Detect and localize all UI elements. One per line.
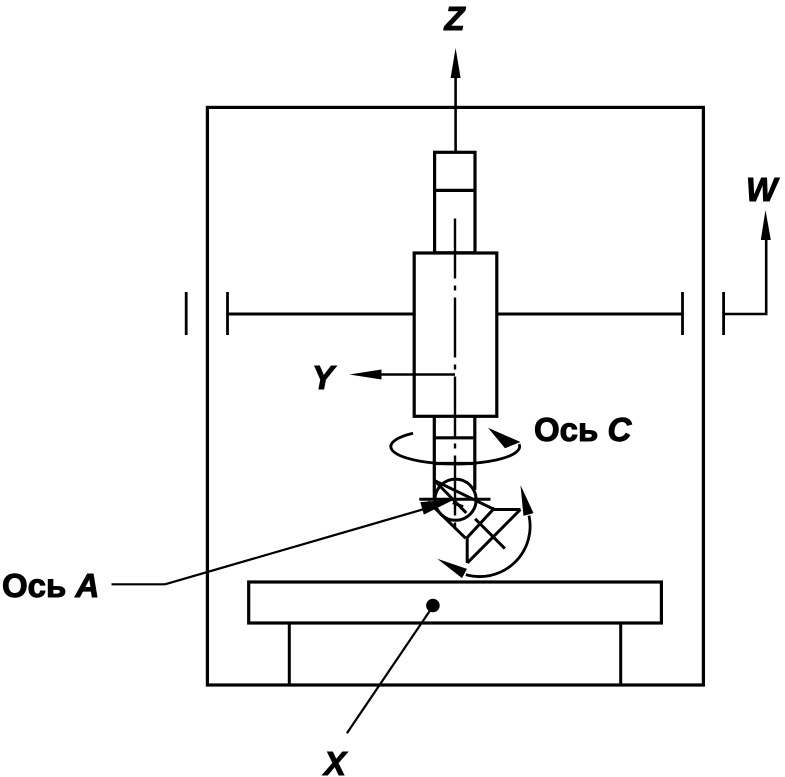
table reference dot — [426, 599, 440, 613]
Y arrowhead — [349, 370, 381, 380]
W axis arrow line — [724, 236, 766, 314]
pivot horizontal centerline — [419, 498, 490, 501]
svg-text:Z: Z — [444, 0, 467, 37]
head bottom vertical edge — [466, 538, 469, 563]
Z arrowhead — [451, 48, 461, 78]
pivot stub — [453, 503, 463, 507]
svg-text:Ось А: Ось А — [2, 567, 99, 604]
Z axis arrow line — [454, 74, 457, 151]
spindle neck left edge — [433, 416, 436, 498]
A leader diagonal segment — [165, 503, 445, 584]
head diagonal through circle — [434, 480, 466, 513]
pedestal left line — [288, 623, 291, 684]
svg-text:W: W — [746, 171, 780, 208]
head upper edge — [434, 480, 494, 509]
crossrail line right — [497, 313, 682, 316]
X leader line — [347, 607, 433, 733]
C axis rotation ellipse — [391, 433, 520, 464]
svg-text:Ось С: Ось С — [534, 411, 632, 448]
spindle head box — [414, 253, 497, 416]
svg-text:X: X — [322, 745, 348, 777]
tick inside left — [226, 292, 229, 335]
tick outside left — [185, 292, 188, 335]
crossrail line left — [228, 313, 414, 316]
A leader arrowhead — [420, 499, 455, 514]
spindle neck right edge — [473, 416, 476, 490]
A arc upper arrowhead — [521, 485, 534, 516]
Y axis arrow line — [377, 373, 455, 376]
quill divider — [435, 189, 475, 192]
head right edge — [467, 510, 520, 563]
head cross stroke — [475, 519, 505, 549]
svg-text:Y: Y — [312, 359, 337, 396]
head top short edge — [494, 508, 520, 511]
A axis rotation arc — [466, 516, 530, 577]
pivot circle — [435, 479, 476, 520]
A arc lower arrowhead — [437, 559, 467, 578]
spindle centerline (dash-dot) — [454, 219, 456, 535]
spindle neck upper cross line — [434, 436, 475, 439]
quill column — [435, 152, 475, 253]
head lower-left diagonal — [428, 502, 466, 539]
spindle neck lower cross line — [434, 462, 475, 465]
machine frame — [207, 107, 703, 685]
W arrowhead — [761, 210, 771, 240]
tick inside right — [681, 292, 684, 335]
A leader horizontal segment — [112, 583, 166, 585]
tick outside right — [722, 292, 725, 335]
C axis arrowhead — [488, 428, 521, 448]
work table — [249, 582, 662, 623]
pedestal right line — [619, 623, 622, 684]
head left lower edge — [467, 508, 495, 538]
